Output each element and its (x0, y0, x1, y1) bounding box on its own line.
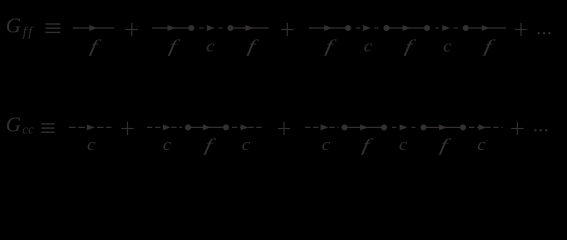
label G_cc (6, 113, 34, 137)
svg-text:c: c (206, 36, 214, 55)
f segment (bottom diagram 3, 2nd) (424, 124, 464, 130)
vertex dot (bottom diagram 2, right) (223, 124, 229, 130)
vertex dot (top diagram 3, 4th) (463, 25, 469, 31)
vertex dot (top diagram 2, left) (188, 25, 194, 31)
label c (163, 135, 171, 154)
svg-text:G: G (6, 14, 21, 38)
vertex dot (top diagram 3, 3rd) (424, 25, 430, 31)
label c (322, 135, 330, 154)
c segment (bottom diagram 3, 2nd) (392, 124, 416, 130)
vertex dot (bottom diagram 3, 4th) (460, 124, 466, 130)
label c (242, 135, 250, 154)
c propagator (bottom diagram 1) (69, 124, 112, 130)
c segment (top diagram 3, 2nd) (435, 25, 458, 31)
f segment (top diagram 3, 2nd) (387, 25, 428, 31)
vertex dot (bottom diagram 3, 1st) (341, 124, 347, 130)
f segment (top diagram 2, left) (152, 25, 191, 31)
f segment (bottom diagram 2) (188, 124, 226, 130)
svg-text:c: c (163, 135, 171, 154)
plus sign top 3 (515, 23, 527, 36)
label f (167, 36, 181, 56)
vertex dot (bottom diagram 2, left) (185, 124, 191, 130)
label c (87, 135, 95, 154)
vertex dot (top diagram 2, right) (227, 25, 233, 31)
label c (477, 135, 485, 154)
label c (206, 36, 214, 55)
svg-text:c: c (322, 135, 330, 154)
svg-text:c: c (87, 135, 95, 154)
f segment (top diagram 3, 1st) (309, 25, 348, 31)
ellipsis bottom (534, 129, 547, 131)
label c (399, 135, 407, 154)
ellipsis top (537, 32, 550, 34)
label f (361, 135, 375, 155)
svg-text:c: c (28, 122, 34, 137)
label c (443, 36, 451, 55)
f propagator (top diagram 1) (73, 25, 115, 31)
svg-text:G: G (6, 113, 21, 137)
plus sign top 2 (281, 23, 294, 36)
f segment (top diagram 3, 3rd) (466, 25, 506, 31)
svg-text:c: c (399, 135, 407, 154)
c segment (top diagram 3, 1st) (356, 25, 379, 31)
label f (324, 36, 338, 56)
plus sign bottom 1 (121, 122, 134, 135)
f segment (bottom diagram 3, 1st) (345, 124, 385, 130)
label f (438, 135, 452, 155)
label c (364, 36, 372, 55)
label G_ff (6, 14, 35, 40)
f segment (top diagram 2, right) (231, 25, 269, 31)
label f (203, 135, 217, 155)
svg-text:c: c (242, 135, 250, 154)
plus sign bottom 2 (278, 122, 290, 135)
equiv sign top (45, 23, 60, 33)
svg-text:c: c (477, 135, 485, 154)
label f (483, 36, 497, 56)
c segment (top diagram 2) (199, 25, 222, 31)
c segment (bottom diagram 2, left) (147, 124, 182, 130)
equiv sign bottom (41, 123, 54, 133)
c segment (bottom diagram 3, 3rd) (469, 124, 503, 130)
label f (403, 36, 417, 56)
svg-text:c: c (443, 36, 451, 55)
label f (89, 36, 103, 56)
label f (246, 36, 260, 56)
svg-text:c: c (364, 36, 372, 55)
c segment (bottom diagram 3, 1st) (305, 124, 339, 130)
vertex dot (bottom diagram 3, 2nd) (381, 124, 387, 130)
plus sign top 1 (126, 23, 139, 36)
vertex dot (top diagram 3, 2nd) (383, 25, 389, 31)
plus sign bottom 3 (511, 122, 523, 135)
vertex dot (bottom diagram 3, 3rd) (420, 124, 426, 130)
vertex dot (top diagram 3, 1st) (345, 25, 351, 31)
c segment (bottom diagram 2, right) (232, 124, 262, 130)
